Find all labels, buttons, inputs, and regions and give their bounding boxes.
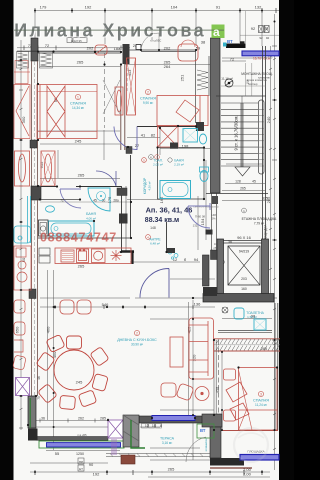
svg-text:45: 45 <box>93 199 97 203</box>
entry door arc <box>188 206 210 228</box>
star burner <box>111 250 122 261</box>
top wall bedroom 1 <box>17 51 121 53</box>
second top dim row <box>17 47 130 49</box>
vertical mid dim dashed <box>104 53 106 128</box>
svg-text:245: 245 <box>75 139 82 144</box>
svg-text:климатик: климатик <box>204 438 208 451</box>
svg-text:90: 90 <box>89 462 94 467</box>
wardrobe left <box>127 58 136 115</box>
party wall (left, between apartments) <box>14 38 41 428</box>
left column extra ticks <box>20 68 23 410</box>
red wardrobe X above <box>158 126 179 147</box>
svg-text:45: 45 <box>252 180 256 184</box>
terrace dims <box>140 426 160 428</box>
wall between bedroom1/bedroom2 <box>121 64 125 150</box>
fridge boxes left <box>39 248 50 263</box>
sink <box>234 308 244 319</box>
svg-text:36: 36 <box>41 417 45 421</box>
svg-text:245: 245 <box>76 380 83 385</box>
bedroom3 bottom wall <box>216 430 278 432</box>
stair direction arrow <box>235 167 250 176</box>
corner block <box>202 414 222 427</box>
bottom-left column <box>28 396 36 428</box>
boxed small dims near terrace <box>142 424 162 429</box>
svg-text:96 Х 16: 96 Х 16 <box>237 235 252 240</box>
svg-text:285: 285 <box>261 347 267 351</box>
left column with X (purple) <box>16 378 30 396</box>
svg-text:4,06 м²: 4,06 м² <box>86 216 96 220</box>
connector verticals from top dim <box>34 11 36 50</box>
svg-text:11,16 м²: 11,16 м² <box>221 77 233 81</box>
neighbour radiator left <box>17 52 29 69</box>
bathtub (bottom) <box>49 221 95 236</box>
svg-text:128: 128 <box>235 180 241 184</box>
svg-text:3,16 м²: 3,16 м² <box>162 441 172 445</box>
bar chairs <box>60 300 91 314</box>
svg-text:154: 154 <box>200 218 205 225</box>
svg-text:0888474747: 0888474747 <box>40 230 117 244</box>
svg-text:265: 265 <box>168 467 175 472</box>
shaft bottom line <box>216 95 266 97</box>
top-right thick black wall <box>226 44 246 49</box>
pillows as bow <box>47 86 65 137</box>
svg-text:12: 12 <box>145 423 150 428</box>
svg-text:285: 285 <box>100 417 106 421</box>
neighbour kitchen circles left <box>14 246 31 290</box>
svg-text:18а: 18а <box>114 46 121 51</box>
svg-text:72: 72 <box>45 43 50 48</box>
svg-text:240: 240 <box>266 116 271 123</box>
pier SE corner of bathroom <box>119 214 128 224</box>
shaft zigzag vent <box>197 70 208 90</box>
svg-text:160: 160 <box>241 287 247 291</box>
living top dim <box>40 306 215 308</box>
living room label <box>117 330 157 346</box>
svg-text:30,90 м²: 30,90 м² <box>131 343 143 347</box>
svg-text:ЕТ: ЕТ <box>79 467 83 471</box>
thin wall below stair wall <box>212 193 217 250</box>
gray corner mass <box>123 415 139 447</box>
svg-text:14,34 м²: 14,34 м² <box>72 106 84 110</box>
toilet <box>222 307 228 313</box>
bedroom1 bottom wall <box>41 186 58 188</box>
stove <box>92 249 106 263</box>
svg-text:192: 192 <box>85 5 92 10</box>
neighbour bathtub along party wall <box>14 196 31 243</box>
bed2 dim line <box>125 64 210 66</box>
sink <box>77 249 89 263</box>
walls around antre <box>166 222 168 252</box>
svg-text:192: 192 <box>93 472 100 477</box>
svg-text:СПАЛНЯ: СПАЛНЯ <box>70 102 86 106</box>
inner face line <box>36 426 108 428</box>
svg-text:94: 94 <box>194 257 199 262</box>
bed3 vertical dim <box>221 352 223 430</box>
stairwell dims <box>226 163 262 165</box>
svg-text:9 ст. х 16,76/30см.: 9 ст. х 16,76/30см. <box>234 115 239 150</box>
svg-text:82: 82 <box>151 133 156 138</box>
svg-text:72: 72 <box>60 199 64 203</box>
vertical wall down <box>210 427 221 458</box>
vent quarter circle symbol <box>225 79 233 87</box>
blue window bar top-right <box>242 51 279 56</box>
bedroom3 label <box>253 391 269 407</box>
svg-text:10: 10 <box>152 423 157 428</box>
svg-text:1,52 м²: 1,52 м² <box>247 315 257 319</box>
svg-text:ПР: ПР <box>79 460 83 464</box>
chairs around <box>67 336 82 349</box>
svg-text:264: 264 <box>164 64 171 69</box>
bed <box>37 85 97 139</box>
svg-text:9,90 м²: 9,90 м² <box>143 101 153 105</box>
svg-text:1: 1 <box>77 96 79 100</box>
svg-text:91: 91 <box>216 5 221 10</box>
door to living <box>140 269 169 298</box>
top dim ticks <box>35 8 276 13</box>
92 92 boxes top right <box>240 11 279 44</box>
svg-text:92: 92 <box>259 36 263 40</box>
svg-text:265: 265 <box>240 187 246 191</box>
nightstands <box>224 369 236 380</box>
svg-text:88.34 кв.м: 88.34 кв.м <box>145 217 179 224</box>
svg-text:413: 413 <box>127 69 132 76</box>
right corridor vertical dims <box>205 160 207 240</box>
sink <box>46 206 55 212</box>
wall segment right of door <box>203 287 217 296</box>
svg-text:72: 72 <box>230 57 235 62</box>
svg-text:203: 203 <box>241 277 247 281</box>
svg-text:132: 132 <box>193 224 198 228</box>
west block <box>203 255 210 286</box>
antre dims <box>130 261 200 263</box>
shower <box>254 319 266 330</box>
svg-text:94/219: 94/219 <box>239 250 249 254</box>
svg-text:179: 179 <box>40 5 47 10</box>
coffee table circle <box>195 387 209 401</box>
mid pier on party wall <box>29 289 36 299</box>
svg-text:КОРИДОР: КОРИДОР <box>143 177 147 194</box>
svg-text:46: 46 <box>37 376 41 380</box>
svg-text:55: 55 <box>55 451 60 456</box>
svg-text:265: 265 <box>78 173 85 178</box>
svg-text:а: а <box>213 25 220 39</box>
wall pier middle <box>126 147 132 154</box>
neighbour wardrobe (left of party wall) <box>15 151 30 186</box>
svg-text:425: 425 <box>215 386 220 393</box>
left vertical dim line <box>20 40 22 430</box>
landing dims <box>206 184 270 201</box>
small column at bed2 window <box>136 45 141 50</box>
tiny top texts <box>71 39 268 87</box>
neighbour bed (left edge) <box>14 85 30 139</box>
svg-text:92: 92 <box>266 36 270 40</box>
top wall (partial, with dims) <box>40 199 80 201</box>
svg-text:ЕТАЖНА ПЛОЩАДКА: ЕТАЖНА ПЛОЩАДКА <box>242 217 277 221</box>
pier at bathroom corner <box>31 186 41 200</box>
pre-wall dim row bottom-left <box>36 419 120 451</box>
left black bar <box>0 0 14 480</box>
green window band under <box>39 441 124 448</box>
main watermark <box>14 21 225 42</box>
green window outline <box>197 424 214 438</box>
washing machine box <box>39 220 49 236</box>
door arc terrace <box>186 437 206 462</box>
right outer wall of stairwell <box>263 46 266 296</box>
svg-text:265: 265 <box>78 263 85 268</box>
svg-text:136: 136 <box>194 302 201 307</box>
svg-text:11,24 м²: 11,24 м² <box>255 403 267 407</box>
dishwasher hatch <box>61 250 74 262</box>
toilet bottom right <box>200 171 208 182</box>
bedroom1 wardrobe <box>41 151 55 186</box>
bath2 dims <box>222 318 272 320</box>
bedroom2 bottom wall + door <box>137 126 196 128</box>
pillows <box>226 382 247 402</box>
sink right <box>199 134 206 144</box>
red heater symbol top of bedroom1 <box>95 45 107 55</box>
svg-text:6,48 м²: 6,48 м² <box>150 241 160 245</box>
svg-text:546: 546 <box>102 302 109 307</box>
green edge on left wall <box>29 398 31 428</box>
circled numbers row <box>149 155 154 160</box>
bottom-right circular watermark (faint) <box>234 428 268 462</box>
svg-text:3: 3 <box>260 393 262 397</box>
svg-text:СПАЛНЯ: СПАЛНЯ <box>253 399 269 403</box>
stair west wall (thick grey) <box>211 38 221 193</box>
svg-text:2,19 м²: 2,19 м² <box>174 163 184 167</box>
svg-text:325: 325 <box>262 197 268 201</box>
column bottom (purple X) <box>108 420 123 438</box>
corridor dims <box>127 137 160 139</box>
svg-text:41: 41 <box>141 133 146 138</box>
bathtub bottom <box>160 181 191 199</box>
X detail right of bed1 <box>103 80 120 114</box>
living room vertical dim lines <box>53 270 55 450</box>
WC label row <box>142 158 173 167</box>
bedroom3 partition (dashed, to living room) <box>214 340 219 430</box>
svg-text:СПАЛНЯ: СПАЛНЯ <box>140 97 156 101</box>
svg-text:2: 2 <box>147 91 149 95</box>
armchairs <box>161 383 176 397</box>
sofa vertical dim line <box>192 300 194 460</box>
right column extra ticks <box>273 58 276 450</box>
stair rail band right <box>259 100 265 174</box>
svg-text:28а: 28а <box>113 199 119 203</box>
radiator under window bedroom1 <box>40 52 53 69</box>
small pier left of shaft <box>211 250 218 260</box>
small boxes bottom center (ПР/ЕТ) <box>78 458 84 471</box>
svg-text:п.п.р.100: п.п.р.100 <box>262 56 273 60</box>
svg-text:615: 615 <box>39 161 44 168</box>
svg-text:П-60 08: П-60 08 <box>195 215 205 219</box>
bedroom2 door arc (blue) <box>114 127 137 150</box>
corner shower top-right <box>88 188 110 211</box>
neighbour room red hints top-left <box>14 61 30 84</box>
svg-text:460: 460 <box>46 326 51 333</box>
svg-text:251: 251 <box>180 74 185 81</box>
svg-text:2: 2 <box>136 332 138 336</box>
blue window bar bottom right <box>240 455 279 461</box>
headboard <box>39 85 41 139</box>
bedroom2 top wall (window) <box>129 50 196 52</box>
svg-text:ВТ: ВТ <box>200 428 206 433</box>
right outer wall lower part <box>275 303 278 430</box>
pillar between bedroom1 and bedroom2 <box>123 44 130 64</box>
bedroom2 right wall + shaft <box>196 50 210 123</box>
svg-text:175: 175 <box>107 196 112 203</box>
bottom horizontal <box>210 458 244 466</box>
green frame L <box>131 420 145 448</box>
svg-text:4,56 м²: 4,56 м² <box>148 181 152 190</box>
svg-text:1250: 1250 <box>76 452 84 456</box>
south wall of elevator <box>203 294 274 303</box>
bottom dimension line <box>30 471 270 473</box>
living bottom-right wall with blue window <box>139 416 210 423</box>
svg-text:ДНЕВНА С КУХН.БОКС: ДНЕВНА С КУХН.БОКС <box>117 338 157 342</box>
svg-text:2,00: 2,00 <box>243 472 252 477</box>
svg-text:262: 262 <box>78 417 84 421</box>
bed <box>157 96 208 126</box>
balcony door arc top <box>141 33 159 50</box>
pier right of bed2 <box>196 122 204 131</box>
black pier below entry <box>206 230 213 235</box>
bathroom1 door arc <box>60 189 81 208</box>
svg-text:148: 148 <box>150 226 156 230</box>
svg-text:265: 265 <box>77 60 84 65</box>
svg-text:бойлер: бойлер <box>248 82 258 86</box>
svg-text:650: 650 <box>15 326 20 333</box>
bedroom2 label <box>140 89 156 105</box>
bathroom right wall <box>130 155 132 238</box>
black cap left <box>28 429 38 441</box>
svg-text:75: 75 <box>37 396 41 400</box>
bathroom bottom wall <box>38 237 131 239</box>
top dimension line <box>35 10 279 12</box>
svg-text:МОНТАЖНА ПЛОЩ.: МОНТАЖНА ПЛОЩ. <box>241 72 273 76</box>
right vertical dim line <box>274 14 276 470</box>
bedroom1 inner dim <box>40 178 120 180</box>
antre label <box>146 235 151 240</box>
svg-text:132: 132 <box>255 5 262 10</box>
antre south walls <box>121 250 134 253</box>
brown box below <box>121 455 135 464</box>
svg-text:ПЛОЩАДКА: ПЛОЩАДКА <box>247 450 264 454</box>
svg-text:Ап. 36, 41, 46: Ап. 36, 41, 46 <box>146 206 193 215</box>
bedroom1 label <box>70 94 86 110</box>
svg-text:ВТ: ВТ <box>227 39 233 44</box>
svg-text:2%: 2% <box>211 217 216 221</box>
armchair on balcony <box>178 44 198 61</box>
corridor walls <box>117 147 132 253</box>
small boxes at top center <box>67 38 87 43</box>
TV stand <box>170 337 183 367</box>
svg-text:202: 202 <box>87 46 94 51</box>
terrace floor rail <box>106 454 210 457</box>
svg-text:2,02 м²: 2,02 м² <box>153 162 163 166</box>
svg-text:92: 92 <box>251 26 256 31</box>
svg-text:104: 104 <box>171 5 178 10</box>
misc short dims <box>126 68 128 92</box>
pipe circles <box>168 250 172 254</box>
door arc corridor to bed1 top <box>96 171 116 186</box>
shower square top <box>183 129 198 143</box>
bedroom1 66 line <box>40 66 121 68</box>
right black bar <box>279 0 294 480</box>
